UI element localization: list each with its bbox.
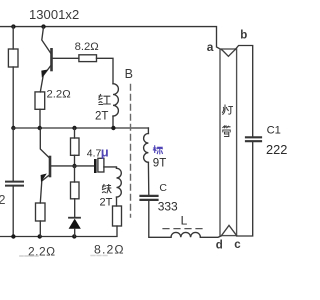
node dot diode anode [72,234,76,238]
wire L to lamp pin d [200,236,221,237]
wire brown winding top [147,128,149,134]
label lv (green) [103,185,111,193]
transistor Q1 [42,27,51,54]
lamp tube [220,49,237,236]
inductor brown winding 9T [144,134,149,163]
label hong (red) [99,95,110,105]
faint smudge left [20,255,38,257]
capacitor C2 plates [6,182,23,186]
resistor R3 2.2 ohm lower [36,203,46,221]
wire red winding to rail [112,116,114,127]
wire brown winding to C [147,162,149,195]
label zong (brown) blue [153,146,162,154]
wire 8.2ohm to red winding [97,58,114,83]
resistor R6 8.2 ohm lower [113,206,122,226]
node dot base junction [72,164,76,168]
wire base node to R5 [74,166,76,182]
capacitor C 333 [141,196,158,200]
inductor L [171,232,200,237]
svg-text:μ: μ [101,145,109,160]
wire left to capacitor [12,128,14,181]
label deng (lamp) [223,105,233,114]
svg-text:d: d [216,240,223,252]
resistor R2 2.2 ohm upper [35,92,45,109]
svg-text:b: b [240,30,247,42]
wire R5 to diode [74,199,76,217]
capacitor C3 4.7u [94,159,97,173]
wire C to L [149,201,171,237]
wire green winding to R6 [116,197,118,206]
transistor Q2 [40,128,49,158]
wire lamp b to C1 [235,46,252,137]
wire R3 to bottom rail [39,221,41,237]
wire R4 to base node [74,155,76,166]
svg-text:a: a [207,40,214,54]
lamp filament bottom [222,225,237,235]
node dot R3 bottom [38,234,42,238]
faint smudge mid [91,255,108,257]
resistor R1 [8,49,18,67]
node dot top-left [11,24,15,28]
svg-text:2T: 2T [95,110,108,122]
bottom rail wire [0,226,117,237]
node dot R2 bottom [38,126,42,130]
wire rail to R4 [74,128,76,138]
svg-text:4.7: 4.7 [87,149,102,160]
node B dashed line [130,85,132,218]
wire left vertical mid [12,67,14,128]
inductor L core dashed [163,228,206,230]
node dot Q1 collector [41,24,45,28]
svg-text:8.2Ω: 8.2Ω [75,41,99,53]
svg-text:9T: 9T [153,158,166,170]
svg-text:2.2Ω: 2.2Ω [47,89,71,101]
svg-text:333: 333 [158,200,178,214]
svg-text:L: L [181,214,188,228]
svg-text:c: c [234,239,241,251]
capacitor C1 [246,137,261,141]
wire C1 to lamp c [237,142,253,236]
inductor red winding 2T [113,84,118,116]
svg-text:13001x2: 13001x2 [29,7,79,22]
wire capacitor to bottom rail [12,187,14,237]
node dot bottom-left [11,234,15,238]
diode D1 [69,217,80,219]
resistor R upper 8.2 ohm [79,55,97,62]
wire left vertical top [12,27,14,49]
svg-text:C: C [159,182,167,194]
svg-text:222: 222 [266,142,287,157]
mid rail wire [13,127,148,129]
svg-text:B: B [125,67,133,81]
svg-text:2T: 2T [100,196,113,208]
label guan (tube) [223,126,230,137]
wire R2 to mid rail [39,109,41,127]
resistor R5 [71,182,80,199]
node dot R4 top [72,126,76,130]
lamp filament top [222,49,236,56]
inductor green winding 2T [117,168,122,197]
top rail wire [0,27,221,50]
svg-text:8.2Ω: 8.2Ω [94,243,125,257]
node dot red winding [111,126,115,130]
wire C3 to green winding [104,167,117,168]
resistor R4 [71,138,80,155]
node dot mid-left [11,126,15,130]
svg-text:2: 2 [0,193,6,207]
svg-text:C1: C1 [267,125,281,137]
